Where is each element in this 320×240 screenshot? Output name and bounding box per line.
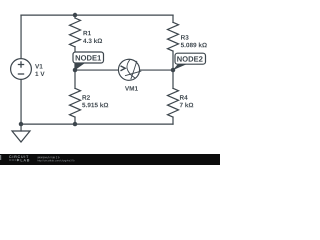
resistor R1 zigzag <box>70 18 81 47</box>
wire R4 top lead <box>172 70 174 88</box>
ground stub <box>20 124 22 131</box>
footer left edge tick <box>0 155 1 160</box>
wire R4 bottom lead <box>172 117 174 124</box>
voltmeter VM1 circle <box>118 59 139 80</box>
label R1 name <box>83 31 91 35</box>
resistor R2 zigzag <box>70 88 81 117</box>
node NODE2 label <box>177 56 202 61</box>
label R1 value <box>83 38 102 43</box>
V1 plus sign <box>18 61 24 67</box>
label R3 name <box>181 35 189 40</box>
voltage source V1 circle <box>11 59 32 80</box>
node NODE1 flag tail <box>74 63 85 71</box>
label R4 name <box>180 95 188 99</box>
wire left vertical lower <box>20 79 22 124</box>
footer text line 1 <box>37 156 59 158</box>
wire R1 top lead <box>74 15 76 18</box>
junction dot node NODE1 <box>73 68 78 73</box>
wire R3 top lead <box>172 15 174 22</box>
node NODE2 flag tail <box>173 64 186 70</box>
junction dot R2 bottom <box>73 122 78 127</box>
junction dot R1 top <box>73 13 78 17</box>
label V1 name <box>35 64 43 68</box>
wire R2 top lead <box>74 70 76 88</box>
wire left vertical upper <box>20 15 22 59</box>
VM1 polarity chevron <box>121 66 126 71</box>
wire bottom rail <box>21 123 173 125</box>
label V1 value <box>35 72 44 76</box>
resistor R4 zigzag <box>168 88 179 117</box>
wire R1 to node NODE1 <box>74 47 76 70</box>
junction dot ground <box>19 122 24 127</box>
node NODE1 flag box <box>73 52 104 63</box>
ground triangle <box>12 131 30 142</box>
VM1 meter arc right <box>131 61 137 79</box>
label R4 value <box>180 103 193 108</box>
junction dot node NODE2 <box>171 68 176 73</box>
label R2 name <box>82 95 89 99</box>
VM1 needle <box>125 71 141 76</box>
footer logo play arrow <box>17 159 19 162</box>
footer text line 2 <box>37 160 74 162</box>
label R3 value <box>181 43 207 48</box>
footer bar <box>0 154 220 165</box>
label R2 value <box>82 103 108 108</box>
node NODE1 label <box>76 55 101 60</box>
wire voltmeter to node NODE2 <box>140 69 173 71</box>
resistor R3 zigzag <box>168 22 179 51</box>
wire node NODE1 to voltmeter <box>75 69 119 71</box>
node NODE2 flag box <box>175 53 206 64</box>
VM1 meter arc left <box>127 60 135 79</box>
label VM1 name <box>125 86 138 90</box>
V1 minus sign <box>18 73 24 75</box>
wire R3 to node NODE2 <box>172 51 174 70</box>
footer logo dash line <box>9 159 16 161</box>
wire top rail <box>21 14 173 16</box>
wire R2 bottom lead <box>74 117 76 124</box>
footer logo LAB <box>21 159 30 162</box>
footer logo CIRCUIT <box>9 155 28 158</box>
